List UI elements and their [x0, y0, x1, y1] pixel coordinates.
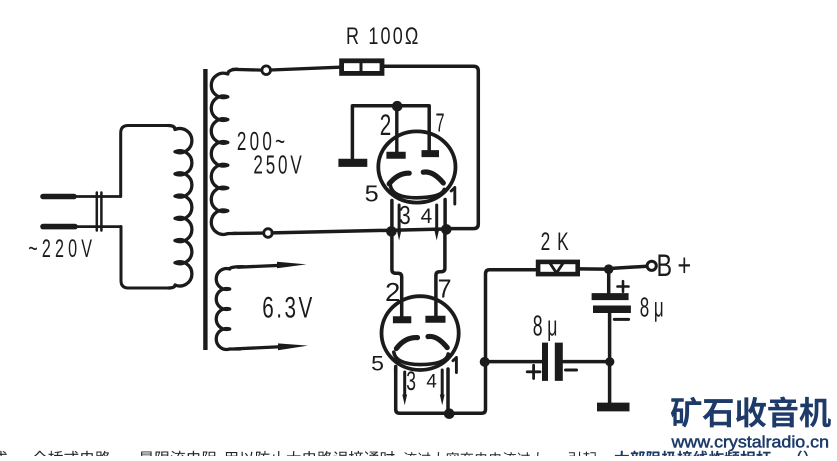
- svg-text:2: 2: [385, 278, 400, 307]
- svg-text:4: 4: [421, 205, 433, 228]
- svg-text:R 100Ω: R 100Ω: [346, 24, 421, 50]
- svg-text:5: 5: [371, 351, 384, 375]
- svg-text:7: 7: [438, 275, 452, 304]
- svg-text:250V: 250V: [253, 150, 304, 180]
- svg-text:3: 3: [399, 202, 411, 231]
- svg-text:3: 3: [406, 366, 416, 396]
- svg-text:2: 2: [380, 110, 392, 142]
- svg-text:8μ: 8μ: [533, 311, 562, 342]
- svg-text:www.crystalradio.cn: www.crystalradio.cn: [670, 432, 829, 451]
- svg-text:2K: 2K: [541, 228, 576, 256]
- svg-text:4: 4: [426, 372, 437, 393]
- svg-text:~220V: ~220V: [28, 236, 96, 263]
- svg-text:5: 5: [365, 182, 379, 208]
- svg-text:7: 7: [436, 109, 445, 138]
- svg-text:6.3V: 6.3V: [262, 292, 315, 324]
- svg-text:B+: B+: [657, 248, 697, 283]
- svg-text:8μ: 8μ: [640, 291, 669, 322]
